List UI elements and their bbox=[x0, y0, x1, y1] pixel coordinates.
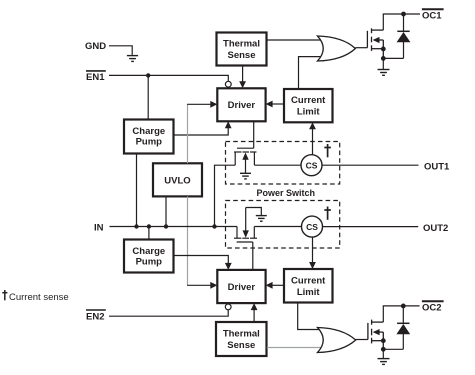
svg-text:Thermal: Thermal bbox=[223, 39, 260, 50]
wire CS2 to OUT2 bbox=[323, 226, 419, 228]
svg-text:Thermal: Thermal bbox=[223, 328, 260, 339]
node IN junction C bbox=[164, 224, 168, 228]
svg-text:Driver: Driver bbox=[228, 282, 256, 293]
svg-text:IN: IN bbox=[94, 223, 104, 234]
node Q4 source/body bbox=[381, 338, 386, 343]
svg-text:CS: CS bbox=[306, 161, 318, 171]
wire Thermal Sense 2 to Driver 2 bbox=[251, 303, 258, 322]
wire OR gate 1 to Q3 gate bbox=[355, 47, 367, 49]
wire Driver 1 to MOSFET Q1 gate bbox=[253, 121, 255, 148]
OC1 pin label bbox=[422, 9, 444, 21]
wire UVLO to Driver 1 arrow bbox=[187, 101, 217, 108]
current limit U6 box bbox=[284, 269, 333, 303]
wire CS2 to Current Limit 2 bbox=[309, 237, 316, 269]
transistor Q4 (OC2 output MOSFET) bbox=[368, 320, 383, 350]
inverter bubble Driver 1 bbox=[225, 81, 231, 87]
wire UVLO to Driver 2 arrow bbox=[187, 282, 217, 289]
wire UVLO to Driver 2 (gray riser) bbox=[187, 196, 189, 285]
transistor Q1 (power MOSFET 1) bbox=[234, 148, 257, 172]
ground (Q3 source) bbox=[378, 58, 390, 75]
node Q3 source / diode D1 junction bbox=[381, 56, 386, 61]
wire Q3 drain to OC1 bbox=[383, 14, 420, 30]
wire CS1 to Current Limit 1 bbox=[309, 122, 316, 155]
ground (power switch 1) bbox=[240, 173, 251, 179]
node IN junction D bbox=[212, 224, 216, 228]
EN2 pin label bbox=[86, 310, 106, 322]
svg-text:Sense: Sense bbox=[228, 50, 256, 61]
EN1 pin label bbox=[86, 71, 106, 83]
node EN1 / Charge Pump 1 junction bbox=[146, 73, 150, 77]
wire Q4 drain to OC2 bbox=[383, 306, 419, 322]
wire Driver 2 to MOSFET Q2 gate bbox=[252, 242, 254, 270]
diode D2 bbox=[383, 306, 410, 349]
charge pump 1 box bbox=[124, 120, 174, 154]
wire OR gate 2 to Q4 gate bbox=[356, 339, 368, 341]
charge pump 2 box bbox=[124, 240, 174, 273]
node IN junction A bbox=[134, 224, 138, 228]
svg-text:GND: GND bbox=[85, 41, 106, 52]
svg-text:OUT2: OUT2 bbox=[423, 223, 448, 234]
current sense CS1 bbox=[301, 155, 322, 176]
svg-text:Current: Current bbox=[291, 275, 326, 286]
wire Thermal Sense 2 to OR gate 2 (gray) bbox=[267, 347, 322, 349]
power switch 1 dashed box bbox=[226, 142, 340, 185]
driver U5 box bbox=[217, 270, 265, 303]
wire Charge Pump 2 to Driver 2 bbox=[174, 256, 232, 270]
node Q4 source / diode D2 junction bbox=[381, 347, 386, 352]
node Q3 source/body bbox=[381, 47, 386, 52]
svg-text:Power Switch: Power Switch bbox=[257, 188, 316, 198]
wire Current Limit 2 to Driver 2 bbox=[266, 282, 284, 289]
power switch 2 dashed box bbox=[226, 201, 340, 249]
node OC2 / diode D2 junction bbox=[401, 304, 406, 309]
wire IN to power switch 1 bbox=[215, 165, 236, 226]
wire Charge Pump 1 to Driver 1 bbox=[174, 121, 232, 135]
thermal sense U7 box bbox=[216, 322, 267, 356]
svg-text:Current sense: Current sense bbox=[9, 292, 69, 303]
svg-text:OC1: OC1 bbox=[422, 11, 442, 22]
svg-text:Charge: Charge bbox=[132, 126, 165, 137]
ground (Q4 source) bbox=[378, 349, 390, 364]
svg-text:OC2: OC2 bbox=[422, 303, 442, 314]
svg-text:Driver: Driver bbox=[228, 100, 256, 111]
wire UVLO to IN bbox=[165, 196, 167, 226]
node IN junction B bbox=[147, 224, 151, 228]
svg-text:Limit: Limit bbox=[297, 287, 321, 298]
OR gate 1 bbox=[318, 36, 356, 61]
driver U2 box bbox=[217, 88, 265, 121]
wire Q1 drain to CS1 bbox=[254, 164, 301, 166]
transistor Q2 (power MOSFET 2) bbox=[234, 208, 261, 243]
thermal sense U1 box bbox=[217, 33, 267, 66]
svg-text:Current: Current bbox=[291, 95, 326, 106]
dagger footnote: current sense bbox=[2, 290, 68, 303]
node OC1 / diode D1 junction bbox=[401, 12, 406, 17]
wire IN bus bbox=[110, 226, 238, 228]
svg-text:Limit: Limit bbox=[297, 107, 321, 118]
wire EN1 to Charge Pump 1 bbox=[147, 75, 149, 119]
dagger note CS2 bbox=[324, 207, 331, 220]
svg-text:EN1: EN1 bbox=[86, 72, 105, 83]
diode D1 bbox=[383, 14, 410, 58]
wire Current Limit 1 to OR gate 1 bbox=[299, 57, 324, 89]
wire Thermal Sense 1 to Driver 1 bbox=[239, 66, 246, 89]
svg-text:UVLO: UVLO bbox=[164, 175, 190, 186]
current sense CS2 bbox=[302, 216, 323, 237]
svg-text:Sense: Sense bbox=[227, 340, 255, 351]
wire Charge Pump 1 to IN bbox=[136, 154, 138, 227]
current limit U3 box bbox=[284, 89, 333, 122]
wire Q2 drain to CS2 bbox=[254, 226, 301, 228]
svg-text:CS: CS bbox=[306, 222, 318, 232]
ground (GND pin) bbox=[127, 56, 138, 62]
svg-text:OUT1: OUT1 bbox=[424, 161, 450, 172]
svg-text:Pump: Pump bbox=[136, 256, 163, 267]
svg-text:Charge: Charge bbox=[132, 246, 165, 257]
svg-text:Pump: Pump bbox=[136, 137, 163, 148]
wire IN to Charge Pump 2 bbox=[148, 227, 150, 240]
svg-text:EN2: EN2 bbox=[86, 311, 104, 322]
wire CS1 to OUT1 bbox=[322, 164, 419, 166]
wire EN1 to Driver 1 enable bubble bbox=[109, 75, 228, 81]
wire Current Limit 1 to Driver 1 bbox=[266, 101, 284, 108]
inverter bubble Driver 2 bbox=[225, 304, 231, 310]
OC2 pin label bbox=[422, 301, 444, 313]
UVLO U4 box bbox=[153, 163, 202, 196]
OR gate 2 bbox=[318, 328, 356, 353]
wire Current Limit 2 to OR gate 2 bbox=[298, 303, 323, 330]
wire GND pin to ground bbox=[109, 46, 132, 55]
dagger note CS1 bbox=[324, 144, 331, 157]
wire Thermal Sense 1 to OR gate 1 bbox=[267, 39, 323, 41]
wire EN2 to Driver 2 enable bubble bbox=[109, 310, 228, 316]
ground (power switch 2) bbox=[256, 216, 267, 222]
wire UVLO to Driver 1 (gray riser) bbox=[187, 104, 189, 163]
transistor Q3 (OC1 output MOSFET) bbox=[367, 28, 383, 58]
